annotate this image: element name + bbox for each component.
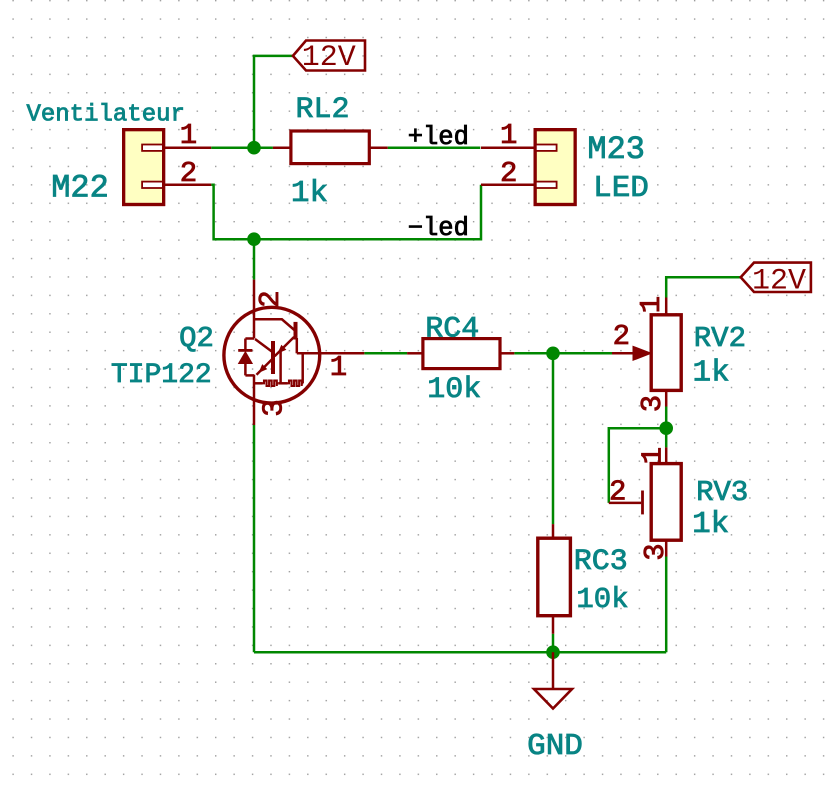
svg-text:2: 2 [180,157,197,190]
svg-text:1: 1 [180,119,197,152]
svg-text:1: 1 [330,351,347,384]
svg-text:RC4: RC4 [425,313,479,347]
svg-text:1k: 1k [291,176,328,211]
svg-text:1: 1 [500,119,517,152]
svg-text:2: 2 [254,290,287,307]
svg-text:+led: +led [408,123,469,152]
svg-text:RV2: RV2 [694,322,746,355]
svg-text:−led: −led [408,214,469,243]
svg-text:RV3: RV3 [696,476,748,509]
svg-text:Q2: Q2 [179,322,214,355]
svg-text:1: 1 [637,447,670,464]
svg-text:2: 2 [609,476,626,509]
svg-text:1: 1 [635,296,668,313]
svg-text:12V: 12V [302,41,356,75]
svg-text:GND: GND [527,729,583,764]
svg-text:1k: 1k [692,507,729,542]
svg-text:1k: 1k [692,356,729,391]
svg-text:10k: 10k [576,583,628,616]
svg-text:3: 3 [636,395,669,412]
svg-text:12V: 12V [752,264,806,298]
svg-text:Ventilateur: Ventilateur [26,101,184,128]
svg-text:3: 3 [639,543,672,560]
svg-text:RL2: RL2 [295,93,349,127]
svg-text:2: 2 [500,157,517,190]
svg-text:RC3: RC3 [574,545,628,579]
svg-text:2: 2 [613,320,630,353]
svg-text:M22: M22 [51,170,109,207]
svg-text:3: 3 [257,399,290,416]
svg-text:TIP122: TIP122 [111,360,212,391]
svg-text:LED: LED [593,171,649,206]
svg-text:M23: M23 [587,131,645,168]
svg-text:10k: 10k [427,373,481,407]
